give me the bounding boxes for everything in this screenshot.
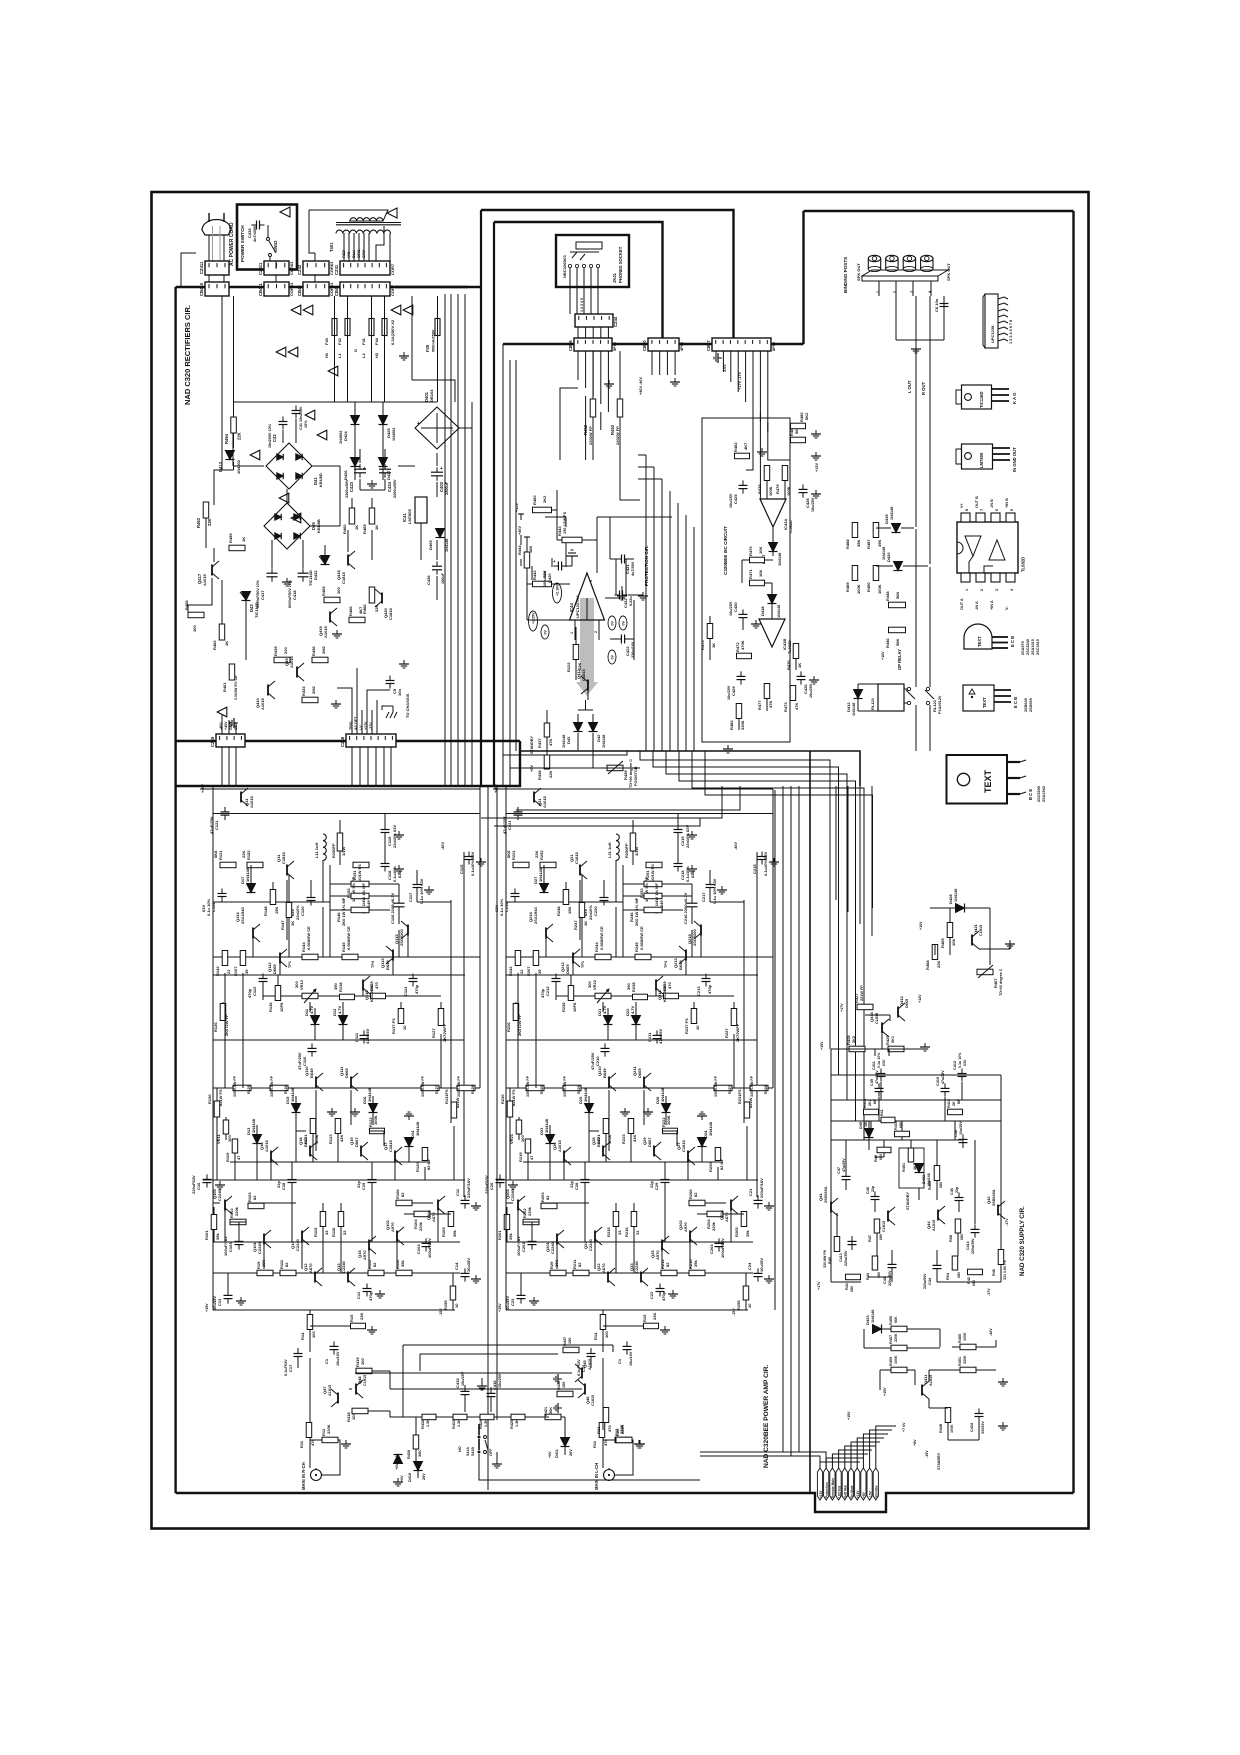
transistor Q201 A1015 <box>533 792 535 803</box>
resistor 3.3R row 1 <box>563 1085 581 1091</box>
connector flag +15V <box>817 1468 822 1500</box>
svg-text:R64: R64 <box>946 1272 950 1280</box>
svg-text:TP1: TP1 <box>581 961 585 968</box>
svg-text:BINDING POSTS: BINDING POSTS <box>843 257 848 293</box>
svg-text:2SA970: 2SA970 <box>1021 641 1025 655</box>
svg-text:330/0.5W FP: 330/0.5W FP <box>270 1075 274 1097</box>
svg-text:56K: 56K <box>894 1316 898 1323</box>
capacitor C104 100uF/16V <box>422 1242 431 1244</box>
wire rail 1242 <box>506 1241 753 1243</box>
capacitor C13 10u/35V <box>224 1294 233 1296</box>
svg-text:R461: R461 <box>222 682 227 692</box>
wire flag lead <box>820 1462 860 1468</box>
svg-text:+8V: +8V <box>913 1439 917 1446</box>
svg-text:R228: R228 <box>764 1085 768 1094</box>
wire flag lead <box>839 1450 872 1468</box>
ground c420 <box>565 565 572 567</box>
ground c13 <box>533 1297 535 1301</box>
svg-text:20V: 20V <box>569 1449 573 1456</box>
wire plug to conn <box>208 275 210 282</box>
transistor Q42 2SB649A <box>997 1205 999 1216</box>
svg-text:PHONES SOCKET: PHONES SOCKET <box>618 246 623 283</box>
diode D14 1N4148 <box>405 1138 414 1147</box>
ground i8c mid <box>815 490 817 494</box>
svg-text:220uF/16V: 220uF/16V <box>466 1178 471 1198</box>
svg-text:1K: 1K <box>797 663 802 668</box>
resistor R465 100 <box>324 597 340 603</box>
svg-text:C114: C114 <box>211 902 216 912</box>
svg-text:1N4148: 1N4148 <box>871 1310 875 1323</box>
main input jack <box>311 1470 322 1481</box>
svg-text:R205: R205 <box>734 1227 739 1237</box>
transistor Q24 C2240 <box>594 1231 596 1242</box>
wire r460 net <box>552 509 557 511</box>
svg-text:+15V: +15V <box>515 503 519 512</box>
relay contact 1 <box>907 687 910 690</box>
diode D418 1N4148 <box>768 595 777 604</box>
wire mid bus left e <box>494 818 700 826</box>
svg-text:82: 82 <box>665 1262 670 1267</box>
svg-text:100K: 100K <box>768 486 773 496</box>
svg-text:1K: 1K <box>711 643 716 648</box>
svg-text:6: 6 <box>589 580 593 582</box>
capacitor C16 220uF/63V <box>203 1178 212 1180</box>
svg-text:R15: R15 <box>349 1314 354 1322</box>
transistor Q23 C2240 <box>640 1272 642 1283</box>
svg-text:470p: 470p <box>414 984 419 994</box>
svg-text:LED fed: LED fed <box>837 1486 841 1498</box>
oval 0V c <box>619 616 627 630</box>
svg-text:Q413: Q413 <box>899 995 904 1006</box>
svg-text:1/1W: 1/1W <box>634 846 639 856</box>
svg-text:6.3A(250V X2: 6.3A(250V X2 <box>390 319 395 345</box>
svg-text:C46: C46 <box>950 1188 954 1195</box>
svg-text:100: 100 <box>360 1358 365 1365</box>
resistor R42 680 <box>968 1269 983 1275</box>
svg-text:2SC2240: 2SC2240 <box>1026 639 1030 655</box>
wire diode grid <box>354 402 356 415</box>
package TIC116D <box>962 385 992 409</box>
svg-text:+6V: +6V <box>548 1451 552 1458</box>
resistor R127 2K7 <box>438 1009 444 1026</box>
transistor Q16 A1015 <box>270 1151 272 1162</box>
resistor R145 0.068 <box>342 954 358 960</box>
svg-text:82: 82 <box>372 1262 377 1267</box>
svg-text:+IN A: +IN A <box>990 600 994 610</box>
transistor Q216 KSC2690 <box>655 980 657 991</box>
svg-text:1 2 3 4 5 6 7 8: 1 2 3 4 5 6 7 8 <box>1009 320 1013 344</box>
svg-text:33: 33 <box>324 1230 329 1235</box>
svg-text:KSC2690: KSC2690 <box>662 984 667 1002</box>
resistor 3.3R row 0 <box>233 1085 251 1091</box>
svg-text:C47: C47 <box>837 1167 841 1174</box>
svg-text:D410: D410 <box>408 1473 412 1482</box>
svg-text:C2240: C2240 <box>341 1260 346 1273</box>
transistor Q420 C1815 <box>381 593 383 604</box>
bridge rectifier D401 DB104 <box>415 407 459 449</box>
svg-text:5PIN: 5PIN <box>612 342 617 351</box>
resistor R203 82 <box>541 1203 557 1209</box>
svg-text:A1015: A1015 <box>557 1139 562 1152</box>
capacitor C220 22n <box>600 897 609 899</box>
svg-text:1K: 1K <box>290 921 295 926</box>
svg-text:0.063W 5% CE: 0.063W 5% CE <box>234 675 238 700</box>
ground c434 <box>1002 1422 1004 1426</box>
transistor Q14 C2240 <box>301 1231 303 1242</box>
wire rail 1162 <box>523 1161 723 1163</box>
capacitor C43 220u/50V <box>888 1263 897 1265</box>
svg-text:MF: MF <box>873 1098 877 1104</box>
op-amp IC44 pin stubs <box>574 620 576 640</box>
svg-text:R125: R125 <box>247 1085 251 1094</box>
svg-text:0.1u 10%: 0.1u 10% <box>499 898 504 916</box>
resistor R207 39 <box>533 951 539 966</box>
svg-text:10P8: 10P8 <box>279 1002 284 1012</box>
svg-text:470: 470 <box>607 1425 612 1432</box>
transistor Q417 A1015 <box>211 565 213 576</box>
package TO92 <box>964 624 992 649</box>
svg-text:C24: C24 <box>747 1262 752 1270</box>
resistor R462 1K <box>219 624 225 640</box>
svg-text:10/1W FS: 10/1W FS <box>357 864 362 882</box>
svg-text:330/0.5W FP: 330/0.5W FP <box>750 1075 754 1097</box>
resistor R249 150 MF <box>644 893 662 899</box>
capacitor C219 22n <box>674 829 683 831</box>
diode D15 1N4148 <box>292 1104 301 1113</box>
svg-text:R456: R456 <box>889 1316 893 1325</box>
svg-text:-IN A: -IN A <box>975 601 979 610</box>
svg-text:A1015: A1015 <box>932 1220 936 1231</box>
svg-text:R465: R465 <box>321 586 326 596</box>
svg-text:10K: 10K <box>758 570 763 577</box>
svg-text:R414: R414 <box>863 1098 867 1108</box>
svg-text:22K: 22K <box>548 771 553 778</box>
wire rail 1180 <box>203 1179 465 1181</box>
svg-text:D425: D425 <box>386 428 391 438</box>
svg-text:R466: R466 <box>348 606 353 616</box>
svg-text:R123: R123 <box>328 1134 333 1144</box>
svg-text:C220: C220 <box>593 906 598 916</box>
svg-text:C1815: C1815 <box>581 668 586 681</box>
resistor R146 2K MF <box>351 907 369 913</box>
svg-text:1.3K: 1.3K <box>515 1419 519 1427</box>
svg-text:R126: R126 <box>284 1085 288 1094</box>
potentiometer VR22 300 <box>595 993 611 999</box>
svg-text:R476: R476 <box>786 660 791 670</box>
svg-text:0.1u10% 63V: 0.1u10% 63V <box>763 851 768 876</box>
wire rail mid <box>506 956 773 958</box>
ground c12 <box>672 1290 674 1294</box>
resistor R456 56K <box>891 1326 907 1332</box>
svg-text:SPK OUT: SPK OUT <box>946 263 951 281</box>
wire transformer right drop <box>376 226 384 261</box>
svg-text:D420: D420 <box>886 552 891 562</box>
svg-text:4n7/400V: 4n7/400V <box>253 225 257 242</box>
svg-text:680: 680 <box>960 1234 964 1240</box>
wire vert b <box>579 880 581 940</box>
resistor R401 4K7 <box>908 1148 914 1162</box>
svg-text:2K72WFP: 2K72WFP <box>735 1023 740 1042</box>
svg-text:R489: R489 <box>845 582 850 592</box>
capacitor C430 10u/25V <box>739 613 748 615</box>
ground c17 <box>428 886 430 890</box>
wire ch wires1 <box>250 865 252 883</box>
svg-text:C2240: C2240 <box>257 1241 262 1254</box>
svg-text:L OUT: L OUT <box>907 380 912 393</box>
svg-text:39K: 39K <box>856 540 861 547</box>
wire bus verticals mid <box>444 294 446 786</box>
capacitor C211 47u/25V <box>653 1034 662 1036</box>
svg-text:NAD C320 SUPPLY CIR.: NAD C320 SUPPLY CIR. <box>1019 1206 1026 1276</box>
svg-text:1K: 1K <box>374 525 379 530</box>
svg-text:2SA1943: 2SA1943 <box>1042 786 1046 802</box>
oval 0V a <box>541 625 549 639</box>
transistor Q112 D669 <box>279 953 281 964</box>
svg-text:220uF/16V: 220uF/16V <box>759 1178 764 1198</box>
wire mid bus left b <box>510 767 640 769</box>
svg-text:C103: C103 <box>228 1242 233 1252</box>
connector flag Standby <box>873 1468 878 1500</box>
svg-text:10u35V: 10u35V <box>212 1296 217 1310</box>
wire flag lead <box>851 1442 880 1468</box>
wire rail 1273 <box>213 1272 460 1274</box>
svg-text:C416: C416 <box>492 1380 497 1390</box>
svg-text:TL082D: TL082D <box>789 520 793 534</box>
wire amp-supply divider <box>809 751 811 1493</box>
transistor Q18 B647 <box>309 1146 311 1157</box>
transistor Q419 A1015 <box>329 612 331 623</box>
svg-text:100K: 100K <box>666 1115 671 1125</box>
capacitor C19 22p <box>368 1179 377 1181</box>
svg-text:D669: D669 <box>565 964 570 974</box>
resistor R438 22K <box>544 755 550 769</box>
svg-text:H1: H1 <box>324 352 329 358</box>
svg-text:100K: 100K <box>786 486 791 496</box>
svg-text:Q48: Q48 <box>357 1376 362 1384</box>
resistor R29 39K <box>550 1270 566 1276</box>
resistor R472 470K <box>737 653 752 659</box>
svg-text:C428: C428 <box>805 498 810 508</box>
connector flag Protection <box>824 1468 829 1500</box>
svg-text:STANDBY: STANDBY <box>906 1191 910 1210</box>
transistor Q215 2SC5200 <box>700 925 702 936</box>
capacitor C412 0.1u <box>958 1073 967 1075</box>
resistor 3.3R row 2 <box>714 1085 732 1091</box>
svg-text:22K: 22K <box>241 851 246 858</box>
svg-text:100u/16V: 100u/16V <box>543 570 547 587</box>
svg-text:1N4148: 1N4148 <box>890 507 894 520</box>
wire rail 1088 <box>506 1087 773 1089</box>
wire cb47 drops <box>715 351 717 362</box>
svg-text:C42: C42 <box>272 434 277 442</box>
wire supply rail <box>831 1074 1001 1076</box>
resistor R452 2202W FP <box>590 399 596 417</box>
svg-text:C41 10n250V: C41 10n250V <box>299 406 303 430</box>
svg-text:2K2: 2K2 <box>852 1036 856 1043</box>
diode D423 1N4148 <box>873 1325 882 1334</box>
svg-text:B647: B647 <box>596 1137 601 1147</box>
svg-text:A970: A970 <box>655 1250 660 1260</box>
svg-text:R412: R412 <box>947 1099 951 1108</box>
capacitor C24 10u/35V <box>754 1272 763 1274</box>
svg-text:47u/25V: 47u/25V <box>365 1029 370 1044</box>
svg-text:10/1W FS: 10/1W FS <box>650 864 655 882</box>
svg-text:C1815: C1815 <box>875 1013 879 1024</box>
wire cz46 up links <box>337 688 352 710</box>
svg-text:R15: R15 <box>642 1314 647 1322</box>
svg-text:C411: C411 <box>872 1061 876 1070</box>
capacitor C216 2200u <box>687 902 698 904</box>
wire rail 1180 <box>496 1179 758 1181</box>
svg-text:C1815: C1815 <box>681 1139 686 1152</box>
wire transformer to CZ41 <box>343 233 345 261</box>
resistor R448b 100K <box>945 1408 951 1423</box>
svg-text:R255: R255 <box>736 1300 741 1310</box>
svg-text:A970: A970 <box>362 1250 367 1260</box>
svg-text:OUT A: OUT A <box>960 598 964 610</box>
svg-text:R462: R462 <box>212 640 217 650</box>
svg-text:R22: R22 <box>615 1428 620 1436</box>
svg-text:22p: 22p <box>276 1181 281 1188</box>
svg-text:L1: L1 <box>337 353 342 358</box>
package TO126 <box>963 685 994 711</box>
capacitor C120 22n <box>307 897 316 899</box>
wire mid bus step <box>666 751 847 1100</box>
svg-text:TP4: TP4 <box>664 960 668 968</box>
capacitor C212 470p <box>552 978 561 980</box>
capacitor C426 10u/25V <box>797 675 806 677</box>
chassis ground <box>392 706 394 712</box>
svg-text:2202W FP: 2202W FP <box>615 426 620 445</box>
svg-text:TP4: TP4 <box>371 960 375 968</box>
resistor R460 1K <box>349 508 355 524</box>
connector CZ41 7pin <box>340 261 390 275</box>
svg-text:R107: R107 <box>233 966 238 976</box>
resistor 3.3R row 0 <box>526 1085 544 1091</box>
svg-text:R68: R68 <box>949 1235 953 1242</box>
svg-text:A670: A670 <box>601 1263 606 1273</box>
svg-text:82 MF: 82 MF <box>426 1158 431 1170</box>
wire vert a <box>622 865 624 957</box>
connector flag Soft Mut <box>842 1468 847 1500</box>
svg-text:47u/25V: 47u/25V <box>842 1158 846 1172</box>
transformer T401 secondary <box>336 230 377 233</box>
resistor R437 47K <box>544 723 550 737</box>
svg-text:C212: C212 <box>545 986 550 996</box>
svg-text:10K: 10K <box>951 939 956 946</box>
svg-text:2K0 1W 1% MF: 2K0 1W 1% MF <box>634 897 639 926</box>
svg-text:R439: R439 <box>273 646 278 656</box>
binding posts bar <box>862 270 948 276</box>
capacitor C117 0.1u <box>413 884 422 886</box>
resistor R420 36K <box>413 1435 419 1449</box>
svg-text:R463: R463 <box>196 517 201 528</box>
capacitor C418 8000uF/50V <box>298 572 309 574</box>
svg-text:V+: V+ <box>960 502 964 508</box>
svg-text:SPK OUT: SPK OUT <box>856 263 861 281</box>
svg-text:R201: R201 <box>497 1230 502 1240</box>
diode D409 1N4148 <box>436 529 445 538</box>
svg-text:R227: R227 <box>728 1085 732 1094</box>
zener D410 20V <box>414 1462 423 1471</box>
svg-text:R460: R460 <box>342 524 347 534</box>
resistor R102 220k <box>230 1219 246 1225</box>
svg-text:821W: 821W <box>748 1097 753 1108</box>
svg-text:330/0.5W FP: 330/0.5W FP <box>526 1075 530 1097</box>
svg-text:R475: R475 <box>700 640 705 650</box>
ground c16b <box>219 1181 221 1185</box>
main input jack <box>604 1470 615 1481</box>
svg-text:330/0.5W FP: 330/0.5W FP <box>714 1075 718 1097</box>
svg-text:C1815: C1815 <box>882 1221 886 1232</box>
diode D413 1N4002 <box>225 451 234 460</box>
resistor R470 10K <box>750 557 765 563</box>
svg-text:-15V: -15V <box>732 1308 736 1316</box>
svg-text:63V: 63V <box>690 871 695 878</box>
ground cb40 <box>674 378 676 382</box>
svg-text:1N4148: 1N4148 <box>445 539 449 552</box>
resistor R443 150 1/2W FS <box>562 537 582 543</box>
capacitor C29 22p <box>661 1179 670 1181</box>
svg-text:CB46: CB46 <box>568 340 573 351</box>
wire input wires <box>602 1310 604 1315</box>
svg-text:100K: 100K <box>963 1332 967 1341</box>
svg-text:100: 100 <box>336 587 341 594</box>
svg-text:+8V: +8V <box>862 1491 866 1498</box>
svg-text:POSISTOR: POSISTOR <box>634 766 638 786</box>
ground q45 <box>558 1407 562 1409</box>
svg-text:CZ45: CZ45 <box>210 736 215 747</box>
svg-text:C221: C221 <box>507 820 512 830</box>
svg-text:1N4148: 1N4148 <box>583 1087 588 1102</box>
transistor Q111 D669 <box>350 1077 352 1088</box>
svg-text:330K: 330K <box>740 720 745 730</box>
svg-text:A1015: A1015 <box>260 697 265 710</box>
svg-text:C104: C104 <box>416 1244 421 1254</box>
svg-text:D427: D427 <box>386 470 391 480</box>
svg-text:100: 100 <box>227 1135 232 1142</box>
connector CB41 7pin <box>340 282 390 296</box>
transistor Q25 A970 <box>661 1240 663 1251</box>
svg-text:D424: D424 <box>343 431 348 441</box>
resistor R212 82 <box>661 1270 677 1276</box>
capacitor C204 100uF/16V <box>715 1242 724 1244</box>
svg-text:63V: 63V <box>290 909 295 916</box>
capacitor C26 220uF/63V <box>496 1178 505 1180</box>
transistor Q15 A970 <box>368 1240 370 1251</box>
svg-text:10%: 10% <box>304 420 308 428</box>
svg-text:B649: B649 <box>309 1068 314 1078</box>
svg-text:R483: R483 <box>729 720 734 730</box>
svg-text:Q41: Q41 <box>818 1193 823 1201</box>
resistor R248 15K <box>563 890 569 905</box>
wire second border mid <box>494 222 663 338</box>
capacitor C48 10u/25V <box>959 1138 968 1140</box>
svg-text:C49: C49 <box>870 1079 874 1086</box>
svg-text:10u/25V: 10u/25V <box>729 493 733 508</box>
svg-text:UPC1237HA: UPC1237HA <box>575 595 580 618</box>
wire flag lead <box>870 1430 892 1468</box>
svg-text:C413: C413 <box>839 1253 843 1262</box>
svg-text:TEXT: TEXT <box>982 697 987 708</box>
resistor R144 0.068 <box>302 954 318 960</box>
svg-text:8PIN: 8PIN <box>771 342 776 351</box>
svg-text:R223: R223 <box>621 1134 626 1144</box>
svg-text:1: 1 <box>570 632 574 634</box>
svg-text:-17V: -17V <box>1005 1218 1009 1226</box>
ground fuse area <box>403 352 405 356</box>
svg-text:63V: 63V <box>583 909 588 916</box>
